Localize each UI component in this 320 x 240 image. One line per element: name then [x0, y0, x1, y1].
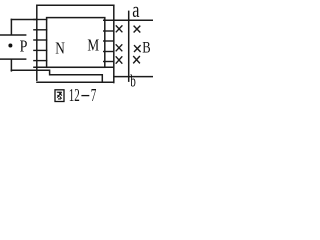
lamp P dot: [8, 44, 12, 48]
field cross 2: [134, 26, 141, 33]
field cross 1: [116, 25, 123, 32]
bottom wire to right: P to step-down corner: [11, 70, 103, 82]
field cross 6: [133, 56, 140, 63]
svg-text:7: 7: [91, 85, 97, 104]
wire from P top up: [10, 19, 12, 36]
bottom tail wire full run: [36, 81, 114, 83]
svg-text:N: N: [55, 39, 65, 58]
lamp box P (cut off at left edge) top line: [0, 34, 26, 36]
coil N rung 4: [33, 49, 47, 51]
coil N rung 1: [33, 19, 47, 21]
long right vertical (coil M outer rail): [113, 5, 115, 84]
field cross 5: [116, 56, 123, 63]
core bottom edge extension to right vertical: [33, 66, 114, 68]
transformer core rectangle: [47, 18, 105, 68]
svg-text:B: B: [142, 40, 150, 57]
svg-text:b: b: [130, 71, 136, 90]
rod ab: [128, 11, 130, 82]
lamp box P bottom line: [0, 58, 26, 60]
svg-text:M: M: [87, 35, 99, 54]
wire from P bottom down: [10, 59, 12, 72]
caption dash: [81, 95, 89, 97]
wire horizontal to coil N top: [11, 19, 38, 21]
svg-text:12: 12: [69, 85, 80, 104]
coil M rung 5: [103, 61, 115, 63]
top rail (coil M top rung extended to field region): [103, 19, 153, 21]
coil N rung 3: [33, 39, 47, 41]
caption hanzi tu (drawn): [55, 90, 64, 102]
bottom rail: [113, 76, 153, 78]
coil N rung 2: [33, 29, 47, 31]
svg-text:a: a: [132, 0, 139, 22]
coil M rung 4: [103, 51, 115, 53]
field cross 4: [134, 45, 141, 52]
svg-text:P: P: [20, 37, 28, 56]
top wire over the core: [37, 5, 114, 20]
coil N rung 5: [33, 60, 47, 62]
coil M rung 2: [103, 30, 115, 32]
field cross 3: [116, 44, 123, 51]
coil N outer vertical: [36, 20, 38, 81]
coil M rung 3: [103, 40, 115, 42]
